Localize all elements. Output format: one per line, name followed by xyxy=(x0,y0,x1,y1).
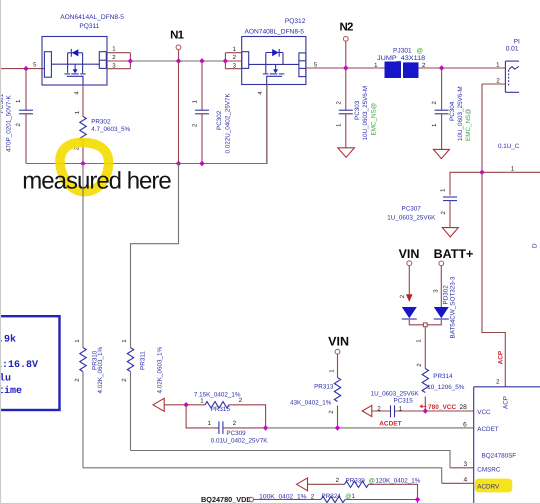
svg-text:PC303: PC303 xyxy=(354,100,361,120)
wire sense line (measured here net) xyxy=(26,85,267,164)
capacitor PC303 xyxy=(335,68,377,148)
svg-text:100K_0402_1%: 100K_0402_1% xyxy=(259,493,307,500)
svg-text:0.022U_0402_25V7K: 0.022U_0402_25V7K xyxy=(225,92,232,153)
junction PQ312 gate xyxy=(223,58,228,63)
wire ACP net xyxy=(482,172,505,386)
junction PC304 tap xyxy=(439,65,444,70)
svg-text:PC302: PC302 xyxy=(216,110,223,130)
resistor PR313 xyxy=(290,369,341,428)
diode PD302 (BAT54CW_SOT323-3) xyxy=(402,276,457,368)
svg-text:ACDET: ACDET xyxy=(379,420,401,427)
svg-text:ACDET: ACDET xyxy=(477,426,498,433)
net label 780_VCC xyxy=(420,404,456,411)
wire port to PR315 junction xyxy=(164,404,205,406)
svg-text:VIN: VIN xyxy=(399,247,420,261)
node BATT+ xyxy=(432,247,473,307)
svg-text:PR339: PR339 xyxy=(346,477,366,484)
svg-text:ACP: ACP xyxy=(498,350,505,364)
svg-text:10U_0603_25V6-M: 10U_0603_25V6-M xyxy=(362,86,369,141)
wire stub below junction xyxy=(417,500,419,504)
pin 28 VCC xyxy=(459,404,467,411)
svg-text:PR311: PR311 xyxy=(140,351,147,370)
wire CMSRC net xyxy=(131,451,451,468)
svg-text:PD302: PD302 xyxy=(442,285,449,305)
ground PC304 xyxy=(433,149,449,158)
svg-text:PJ301: PJ301 xyxy=(393,47,412,54)
junction ACDET line start xyxy=(263,425,268,430)
resistor PR311 xyxy=(121,164,178,451)
svg-text:1U_0603_25V6K: 1U_0603_25V6K xyxy=(387,214,436,221)
junction sense drop xyxy=(176,161,181,166)
svg-text:2: 2 xyxy=(399,294,406,298)
jumper PJ301 (JUMP_43X118) xyxy=(374,47,505,78)
pin label 1 on 172 line xyxy=(511,165,515,172)
junction ACDRV bottom xyxy=(415,497,420,502)
resistor PR314 xyxy=(416,363,465,411)
wire PQ312 pin 4 drop xyxy=(266,85,268,164)
pin number 2 ACP xyxy=(496,379,500,386)
svg-text:VCC: VCC xyxy=(477,409,491,416)
pin 3 CMSRC xyxy=(464,461,468,468)
wire PQ312 pin5 to PJ301 xyxy=(306,67,385,69)
wire PQ311 pins 1-3 to node xyxy=(106,53,130,69)
node N1 xyxy=(170,30,185,61)
net label ACDET xyxy=(379,420,401,427)
wire N1 bus xyxy=(130,60,225,62)
svg-text:1: 1 xyxy=(200,398,204,405)
ground PC307 xyxy=(442,228,458,237)
svg-text:3: 3 xyxy=(464,461,468,468)
port arrow PR339 left xyxy=(297,478,308,491)
junction ACP tap xyxy=(479,170,484,175)
svg-text:4.7_0603_5%: 4.7_0603_5% xyxy=(91,126,130,133)
svg-text:PQ311: PQ311 xyxy=(79,23,99,30)
svg-text:1U_0603_25V6K: 1U_0603_25V6K xyxy=(371,390,420,397)
resistor PR315 xyxy=(194,391,266,428)
highlight circle annotation xyxy=(60,143,109,192)
junction PC302 bottom xyxy=(199,161,204,166)
pin 6 ACDET xyxy=(463,421,467,428)
svg-text:10U_0603_25V6-M: 10U_0603_25V6-M xyxy=(457,86,464,141)
svg-text:0.01: 0.01 xyxy=(506,46,519,53)
junction 780_VCC xyxy=(423,408,428,413)
junction PC302 tap xyxy=(199,58,204,63)
svg-text:PC309: PC309 xyxy=(226,430,246,437)
svg-text:1:16.8V: 1:16.8V xyxy=(0,360,38,371)
svg-text:ACDRV: ACDRV xyxy=(477,483,500,490)
svg-text:PR324: PR324 xyxy=(322,493,342,500)
svg-text:measured here: measured here xyxy=(22,168,171,195)
capacitor PC304 xyxy=(431,68,472,149)
junction PC301 tap xyxy=(23,66,28,71)
svg-text:4.02K_0603_1%: 4.02K_0603_1% xyxy=(156,347,163,394)
node VIN lower xyxy=(328,335,349,378)
svg-text:780_VCC: 780_VCC xyxy=(428,404,456,411)
svg-text:0.1U_C: 0.1U_C xyxy=(498,143,520,150)
wire VIN input to PQ311 pin 5 xyxy=(0,68,44,70)
capacitor PC301 xyxy=(0,69,33,164)
svg-text:2: 2 xyxy=(335,101,342,105)
svg-text:28: 28 xyxy=(459,404,467,411)
svg-text:@: @ xyxy=(369,477,375,484)
svg-text:.9k: .9k xyxy=(0,334,16,346)
port arrow ACDET left xyxy=(153,398,164,411)
svg-text:2: 2 xyxy=(239,397,243,404)
resistor PR302 xyxy=(74,85,131,164)
wire PQ312 pins 1-3 xyxy=(225,53,241,69)
node BQ24780_VDD xyxy=(201,495,254,504)
text D fragment at right edge xyxy=(532,243,539,248)
svg-text:EMC_NS@: EMC_NS@ xyxy=(371,103,378,136)
wire ACDET net xyxy=(266,427,474,429)
annotation text measured here xyxy=(22,168,171,195)
node N2 xyxy=(339,21,353,68)
svg-text:1: 1 xyxy=(352,493,356,500)
svg-text:BATT+: BATT+ xyxy=(434,247,474,261)
svg-text:1: 1 xyxy=(335,123,342,127)
svg-text:VIN: VIN xyxy=(328,335,349,349)
node VIN upper xyxy=(399,247,420,302)
svg-text:@: @ xyxy=(417,48,423,55)
svg-text:PR315: PR315 xyxy=(211,406,231,413)
svg-text:ACP: ACP xyxy=(503,396,510,409)
svg-text:43K_0402_1%: 43K_0402_1% xyxy=(290,400,332,407)
chip U1 BQ24780S xyxy=(474,387,540,504)
resistor PR324 xyxy=(254,493,418,503)
svg-text:lu: lu xyxy=(0,373,11,385)
capacitor PC307 xyxy=(387,188,457,227)
svg-text:1: 1 xyxy=(74,110,81,114)
svg-text:PQ312: PQ312 xyxy=(285,18,306,25)
svg-text:PR314: PR314 xyxy=(433,373,453,380)
svg-text:4: 4 xyxy=(464,476,468,483)
junction measured-here point xyxy=(80,161,85,166)
junction N1 xyxy=(176,58,181,63)
svg-text:N1: N1 xyxy=(170,30,185,42)
wire N1 drop to sense line xyxy=(178,61,180,164)
svg-text:PR313: PR313 xyxy=(314,384,334,391)
text 0.1U_C cap value at edge xyxy=(498,143,520,150)
wire ACDRV pin stub xyxy=(442,482,474,484)
svg-text:EMC_NS@: EMC_NS@ xyxy=(465,108,472,141)
svg-text:PC315: PC315 xyxy=(394,397,414,404)
svg-text:CMSRC: CMSRC xyxy=(477,467,501,474)
junction PQ311 drain xyxy=(128,58,133,63)
junction PR315/PC309 xyxy=(183,402,188,407)
svg-text:120K_0402_1%: 120K_0402_1% xyxy=(376,477,421,484)
svg-text:PR302: PR302 xyxy=(91,119,111,126)
svg-text:6: 6 xyxy=(463,421,467,428)
wire jack pin2 drop xyxy=(481,84,483,172)
svg-text:AON7408L_DFN8-5: AON7408L_DFN8-5 xyxy=(245,28,305,35)
capacitor PC309 xyxy=(186,405,268,445)
junction PR313 bottom xyxy=(335,425,340,430)
svg-text:BQ24780SF: BQ24780SF xyxy=(482,453,517,460)
svg-text:N2: N2 xyxy=(339,21,353,33)
connector PJ at right edge xyxy=(482,39,520,93)
svg-text:2: 2 xyxy=(377,405,381,412)
svg-text:470P_0201_50V7-K: 470P_0201_50V7-K xyxy=(6,94,13,152)
svg-text:PC304: PC304 xyxy=(449,101,456,121)
wire 172 line to PC307 and right xyxy=(450,172,540,195)
transistor PQ311 (AON6414AL_DFN8-5) xyxy=(33,14,124,95)
junction N2 xyxy=(343,65,348,70)
svg-text:JUMP_43X118: JUMP_43X118 xyxy=(377,55,426,62)
svg-text:2: 2 xyxy=(233,420,237,427)
net label ACP red xyxy=(498,350,505,364)
capacitor PC315 xyxy=(371,390,474,417)
wire CMSRC pin stub xyxy=(450,467,474,469)
port arrow PC315 left xyxy=(362,405,372,416)
svg-text:time: time xyxy=(0,385,22,397)
transistor PQ312 (AON7408L_DFN8-5) xyxy=(233,18,318,95)
svg-text:BAT54CW_SOT323-3: BAT54CW_SOT323-3 xyxy=(450,276,457,338)
svg-text:BQ24780_VDD: BQ24780_VDD xyxy=(201,495,252,504)
resistor PR339 xyxy=(308,477,421,499)
svg-text:PC307: PC307 xyxy=(402,206,422,213)
ground PC303 xyxy=(338,148,355,158)
box callout blue xyxy=(0,316,60,410)
svg-text:AON6414AL_DFN8-5: AON6414AL_DFN8-5 xyxy=(60,14,124,21)
wire ACDRV net xyxy=(83,468,442,484)
capacitor PC302 xyxy=(192,61,232,164)
svg-text:D: D xyxy=(532,243,539,248)
svg-text:4.02K_0603_1%: 4.02K_0603_1% xyxy=(97,347,104,394)
resistor PR310 xyxy=(74,164,104,468)
svg-text:PI: PI xyxy=(514,39,520,46)
pin 4 ACDRV xyxy=(464,476,468,483)
svg-text:0.01U_0402_25V7K: 0.01U_0402_25V7K xyxy=(211,438,269,445)
svg-text:10_1206_5%: 10_1206_5% xyxy=(427,384,465,391)
